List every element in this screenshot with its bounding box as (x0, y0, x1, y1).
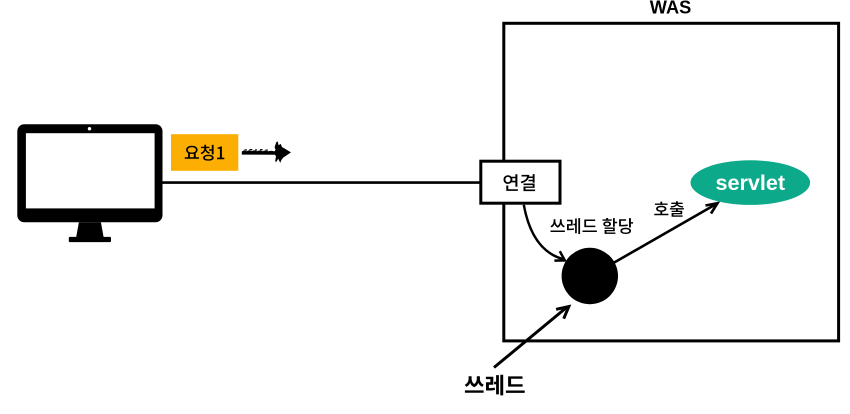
svg-text:WAS: WAS (650, 0, 691, 18)
svg-text:servlet: servlet (715, 170, 785, 195)
